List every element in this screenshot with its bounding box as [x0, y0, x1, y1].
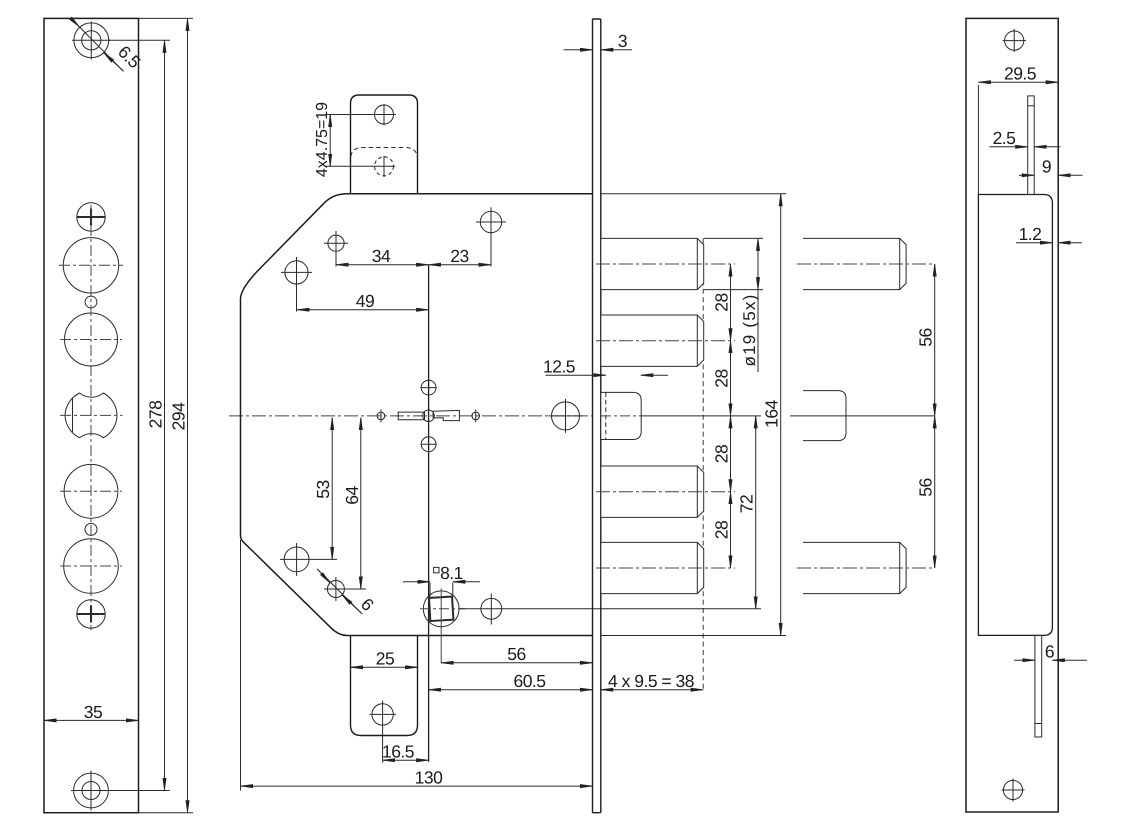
dim 34 line — [336, 264, 429, 266]
side outer plate — [966, 18, 1058, 812]
follower hub — [423, 410, 435, 422]
dim 2.5 left arrow — [990, 146, 1028, 148]
leader 6.5 arrow lower — [104, 53, 124, 72]
leader 6 arrow upper — [319, 570, 330, 583]
node left tick — [380, 410, 382, 423]
small hole P8 — [85, 523, 97, 535]
follower lever left arm — [398, 412, 424, 420]
hole H11 bottom outer — [74, 773, 109, 808]
dim 28 line c — [730, 416, 732, 492]
svg-text:12.5: 12.5 — [543, 357, 575, 377]
svg-text:49: 49 — [356, 291, 374, 311]
svg-text:64: 64 — [342, 486, 362, 505]
side hole top crosshair — [1003, 29, 1027, 52]
dim 8.1 extensions — [430, 583, 453, 600]
main vertical axis — [428, 265, 430, 762]
svg-text:1.2: 1.2 — [1019, 224, 1042, 244]
main horizontal centerline — [229, 415, 593, 417]
dim 3 left arrow — [564, 49, 593, 51]
side tongue bar — [1035, 635, 1042, 737]
dim 2.5 right arrow — [1034, 146, 1060, 148]
bolt 1 centerline — [596, 263, 735, 265]
tab hole — [375, 105, 394, 124]
dim 28 line a — [730, 264, 732, 341]
bolt 2 — [601, 315, 704, 366]
thrown key block centerline — [790, 415, 934, 417]
screw S2 cross — [77, 209, 106, 226]
thrown bolt bottom centerline — [797, 567, 934, 569]
svg-text:8.1: 8.1 — [440, 563, 463, 583]
dim 28 line b — [730, 341, 732, 416]
dim 3 right arrow — [601, 49, 632, 51]
dim 130 extension left — [240, 540, 242, 791]
bolt 2 centerline — [596, 340, 735, 342]
svg-text:4 x 9.5 = 38: 4 x 9.5 = 38 — [608, 671, 694, 691]
dim 294 line — [187, 18, 189, 812]
tab dashed slot — [351, 148, 418, 157]
svg-text:56: 56 — [507, 644, 525, 664]
svg-text:35: 35 — [84, 702, 102, 722]
follower upper pin — [421, 380, 436, 395]
dim 1.2 left arrow — [1016, 242, 1052, 244]
small hole P4 — [85, 296, 97, 308]
dim ø19 underline — [757, 290, 759, 372]
extension line to 72 dim — [460, 608, 762, 610]
svg-text:29.5: 29.5 — [1004, 64, 1036, 84]
hole right of square — [481, 598, 502, 619]
thrown bolt bottom — [803, 542, 906, 593]
hole H11 inner — [82, 782, 100, 800]
centerline extension to dims — [641, 415, 761, 417]
case hole C3 (49) — [285, 261, 308, 284]
svg-text:25: 25 — [376, 649, 394, 669]
dim 9 left arrow — [1019, 174, 1034, 176]
dim 56 lower line — [934, 416, 936, 568]
dim 12.5 left arrow — [546, 374, 606, 376]
side hole top — [1005, 31, 1024, 50]
dim 164 extension bottom — [601, 635, 786, 637]
svg-text:72: 72 — [737, 495, 757, 513]
svg-text:2.5: 2.5 — [993, 128, 1016, 148]
case hole C4 (53) — [284, 547, 309, 572]
bolt hole B5 — [65, 313, 118, 366]
cylinder block — [601, 392, 641, 439]
tab dashed hole crosshair — [383, 156, 385, 177]
bolt 4 — [601, 542, 704, 593]
small node left — [377, 412, 385, 420]
top mounting tab — [351, 95, 418, 194]
thrown bolt top — [803, 238, 906, 289]
screw hole S10 — [77, 600, 105, 628]
side faceplate bar tick — [1028, 105, 1035, 107]
case hole C5 (64, leader 6) — [327, 581, 344, 598]
dim 4x4.75=19 line — [329, 115, 331, 167]
svg-text:60.5: 60.5 — [513, 671, 545, 691]
dim 53 line — [331, 418, 333, 560]
dim 278 extension bottom — [109, 790, 170, 792]
side tongue tick — [1035, 723, 1042, 725]
dim 9 right arrow — [1058, 174, 1082, 176]
dim 25 line — [351, 666, 418, 668]
svg-text:3: 3 — [618, 31, 627, 51]
svg-text:34: 34 — [372, 246, 391, 266]
dim 8.1 right arrow — [453, 581, 480, 583]
bolt 1 — [601, 238, 704, 289]
dim 23 line — [429, 264, 491, 266]
svg-text:278: 278 — [146, 401, 166, 429]
svg-text:130: 130 — [415, 768, 443, 788]
svg-text:ø19 (5x): ø19 (5x) — [740, 294, 759, 367]
bolt 4 centerline — [596, 567, 735, 569]
bolt hole B7 — [64, 464, 118, 518]
follower lever right arm — [433, 410, 459, 420]
leader 6.5 diagonal — [72, 19, 124, 71]
dim 1.2 right arrow — [1058, 242, 1082, 244]
screw hole S2 — [77, 203, 105, 231]
C4 crosshair + extension to 53 dim — [280, 543, 337, 576]
dim 278 line — [164, 40, 166, 790]
case hole C2 (34) — [328, 235, 344, 251]
faceplate strip — [593, 19, 601, 813]
svg-text:6: 6 — [1045, 642, 1054, 662]
dim 12.5 right arrow — [641, 374, 668, 376]
keyhole chord — [72, 399, 74, 433]
hole near faceplate — [552, 402, 580, 430]
dim 29.5 extension — [977, 85, 979, 195]
B5 centerlines — [60, 339, 122, 341]
thrown bolt top centerline — [797, 263, 934, 265]
svg-text:164: 164 — [762, 399, 782, 427]
svg-text:16.5: 16.5 — [382, 742, 414, 762]
dim 64 line — [360, 418, 362, 590]
small node right — [472, 412, 480, 420]
dim 28 line d — [730, 492, 732, 568]
lock body outline — [241, 194, 593, 636]
dim 294 extension top — [139, 17, 194, 19]
square centerline horizontal — [420, 608, 465, 610]
dim 6 left arrow — [1014, 659, 1035, 661]
dim 278 extension top — [109, 39, 170, 41]
K6 centerlines — [60, 414, 123, 416]
dim 35 line — [44, 719, 139, 721]
dim 29.5 line — [978, 81, 1058, 83]
bolt 3 centerline — [596, 491, 735, 493]
follower lower pin — [421, 437, 436, 452]
bolt hole B3 — [63, 238, 118, 293]
bolt 3 — [601, 466, 704, 517]
dim ø19 line — [757, 238, 759, 289]
C1 crosshair + extension to dim — [476, 207, 506, 266]
hole right of square tick — [490, 594, 492, 625]
bottom mounting tab — [351, 636, 418, 736]
dim 16.5 line — [383, 759, 429, 761]
leader 6.5 arrow upper — [74, 21, 80, 27]
svg-text:28: 28 — [712, 521, 732, 539]
case hole C1 (23) — [480, 211, 501, 232]
C5 crosshair + extension to 64 dim — [324, 577, 366, 601]
dim 6 right arrow — [1052, 659, 1087, 661]
dim 8.1 square symbol — [434, 567, 439, 572]
dim 8.1 left arrow — [403, 581, 430, 583]
dim 164 line — [780, 194, 782, 636]
dim ø19 extensions — [704, 238, 763, 289]
svg-text:28: 28 — [712, 369, 732, 387]
dim 294 extension bottom — [139, 812, 194, 814]
bottom tab hole — [372, 704, 393, 725]
dim 130 line — [241, 785, 593, 787]
plate outline — [44, 18, 139, 812]
svg-text:28: 28 — [712, 293, 732, 311]
dim 56 line — [441, 662, 592, 664]
B7 centerlines — [60, 490, 122, 492]
screw S10 cross — [77, 606, 106, 623]
leader 6 arrow lower — [342, 595, 361, 613]
dim 56 upper line — [934, 264, 936, 416]
tab dashed hole — [375, 157, 394, 176]
dim 49 line — [297, 309, 429, 311]
hole H1 top (6.5) outer — [74, 23, 109, 58]
keyhole K6 — [65, 393, 117, 438]
leader 6 diagonal — [317, 569, 362, 614]
cylinder centerline — [601, 415, 641, 417]
svg-text:53: 53 — [313, 480, 333, 498]
hole H1 crosshair — [72, 22, 111, 60]
svg-text:56: 56 — [916, 328, 936, 346]
side body outline — [978, 195, 1052, 636]
cylinder hidden line — [605, 392, 607, 439]
side hole bottom crosshair — [1002, 778, 1025, 801]
tab hole crosshair — [373, 104, 397, 126]
dim 4x4.75=19 extension top — [326, 114, 374, 116]
dim 72 line — [755, 416, 757, 609]
bottom tab hole crosshair — [370, 701, 397, 763]
C3 crosshair + extension — [281, 257, 312, 312]
node right tick — [475, 410, 477, 423]
plate vertical centerline — [90, 205, 92, 630]
square follower hole 8.1 — [429, 597, 453, 621]
side faceplate bar — [1028, 96, 1035, 195]
square follower circle — [423, 591, 459, 627]
hidden dashed line at bolt tip plane — [702, 238, 704, 689]
dim 4x4.75=19 extension bottom — [326, 165, 395, 167]
dim 60.5 line — [429, 689, 593, 691]
svg-text:28: 28 — [712, 445, 732, 463]
dim 4x9.5=38 line — [601, 689, 703, 691]
bolt hole B9 — [64, 539, 119, 594]
B9 centerlines — [60, 565, 122, 567]
B3 centerlines — [59, 264, 123, 266]
dim 164 extension top — [601, 193, 786, 195]
C2 crosshair + extension — [324, 231, 348, 267]
hole near faceplate crosshair — [549, 399, 583, 433]
svg-text:56: 56 — [916, 478, 936, 496]
square centerline vertical — [440, 589, 442, 664]
hole H11 crosshair — [71, 771, 111, 811]
side hole bottom — [1003, 780, 1022, 799]
svg-text:294: 294 — [169, 402, 189, 430]
svg-text:23: 23 — [450, 246, 468, 266]
svg-text:4x4.75=19: 4x4.75=19 — [314, 102, 331, 177]
thrown key block — [803, 391, 846, 441]
hole H1 inner — [82, 31, 101, 50]
svg-text:9: 9 — [1042, 157, 1051, 177]
